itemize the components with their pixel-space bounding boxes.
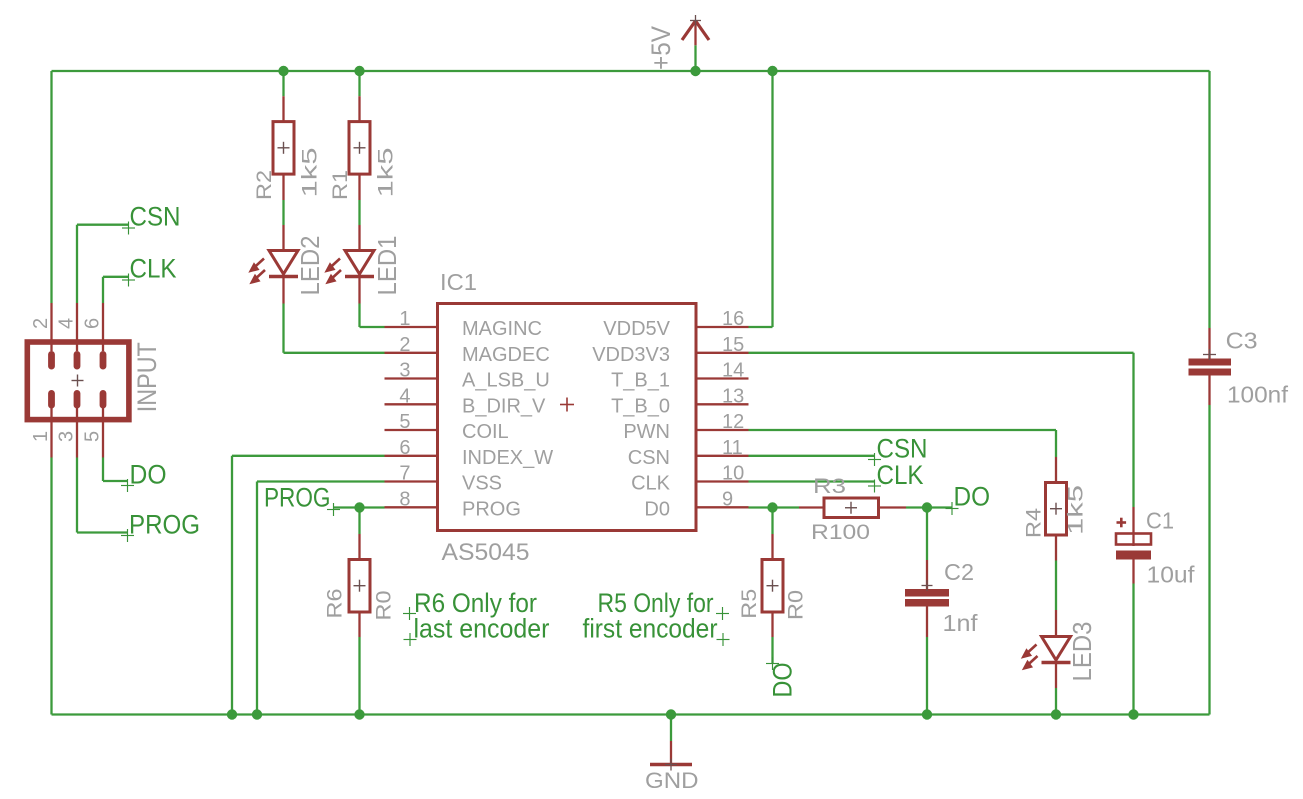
- svg-text:1k5: 1k5: [375, 148, 398, 198]
- svg-text:IC1: IC1: [440, 269, 477, 295]
- svg-text:5: 5: [399, 411, 410, 433]
- svg-text:R5: R5: [738, 589, 761, 619]
- svg-text:3: 3: [56, 431, 78, 442]
- svg-text:B_DIR_V: B_DIR_V: [462, 396, 546, 418]
- svg-text:R6: R6: [324, 589, 347, 619]
- svg-text:R4: R4: [1023, 508, 1046, 538]
- svg-text:CSN: CSN: [877, 434, 928, 464]
- svg-text:LED1: LED1: [372, 236, 402, 296]
- svg-text:MAGINC: MAGINC: [462, 318, 542, 340]
- svg-text:T_B_1: T_B_1: [611, 370, 670, 392]
- svg-text:1: 1: [30, 431, 52, 442]
- svg-text:4: 4: [56, 318, 78, 329]
- svg-text:7: 7: [399, 463, 410, 485]
- svg-text:6: 6: [82, 318, 104, 329]
- svg-text:COIL: COIL: [462, 421, 509, 443]
- svg-text:4: 4: [399, 385, 410, 407]
- svg-text:11: 11: [722, 437, 743, 459]
- svg-text:PROG: PROG: [264, 483, 331, 513]
- svg-text:3: 3: [399, 360, 410, 382]
- svg-text:R2: R2: [253, 170, 276, 200]
- svg-text:D0: D0: [644, 499, 670, 521]
- svg-text:1k5: 1k5: [299, 148, 322, 198]
- svg-text:PROG: PROG: [462, 499, 521, 521]
- svg-text:VSS: VSS: [462, 473, 502, 495]
- svg-text:6: 6: [399, 437, 410, 459]
- svg-text:1nf: 1nf: [943, 610, 979, 636]
- svg-text:100nf: 100nf: [1227, 382, 1289, 408]
- svg-text:8: 8: [399, 488, 410, 510]
- svg-text:1k5: 1k5: [1065, 485, 1088, 535]
- svg-text:14: 14: [722, 360, 744, 382]
- svg-text:9: 9: [722, 488, 733, 510]
- svg-text:T_B_0: T_B_0: [611, 396, 670, 418]
- svg-text:first encoder: first encoder: [583, 613, 718, 643]
- svg-text:last encoder: last encoder: [414, 613, 550, 643]
- svg-text:CSN: CSN: [130, 202, 181, 232]
- svg-text:DO: DO: [130, 460, 167, 490]
- svg-text:10: 10: [722, 463, 744, 485]
- svg-text:INDEX_W: INDEX_W: [462, 447, 553, 469]
- svg-text:C1: C1: [1146, 508, 1174, 534]
- svg-text:CLK: CLK: [877, 460, 924, 490]
- svg-text:13: 13: [722, 385, 744, 407]
- svg-text:AS5045: AS5045: [442, 539, 530, 566]
- svg-text:15: 15: [722, 334, 744, 356]
- svg-text:2: 2: [30, 318, 52, 329]
- svg-text:CSN: CSN: [628, 447, 670, 469]
- svg-text:1: 1: [399, 308, 410, 330]
- svg-text:16: 16: [722, 308, 744, 330]
- svg-text:INPUT: INPUT: [132, 342, 162, 412]
- svg-text:CLK: CLK: [130, 254, 177, 284]
- svg-text:VDD3V3: VDD3V3: [592, 344, 670, 366]
- svg-text:GND: GND: [645, 768, 699, 793]
- svg-text:C3: C3: [1226, 328, 1258, 354]
- svg-text:LED3: LED3: [1067, 622, 1097, 682]
- svg-text:PROG: PROG: [129, 510, 200, 540]
- svg-text:R0: R0: [785, 590, 808, 620]
- svg-text:R0: R0: [372, 591, 395, 621]
- svg-text:+5V: +5V: [646, 26, 676, 70]
- svg-text:2: 2: [399, 334, 410, 356]
- svg-text:10uf: 10uf: [1147, 561, 1196, 587]
- svg-text:C2: C2: [944, 559, 974, 585]
- svg-text:R100: R100: [811, 521, 870, 544]
- svg-text:A_LSB_U: A_LSB_U: [462, 370, 550, 392]
- svg-text:DO: DO: [954, 482, 991, 512]
- svg-text:PWN: PWN: [623, 421, 670, 443]
- svg-text:VDD5V: VDD5V: [603, 318, 670, 340]
- svg-text:5: 5: [82, 431, 104, 442]
- svg-text:MAGDEC: MAGDEC: [462, 344, 550, 366]
- svg-text:R3: R3: [813, 475, 846, 498]
- svg-text:CLK: CLK: [631, 473, 671, 495]
- svg-text:12: 12: [722, 411, 744, 433]
- svg-text:LED2: LED2: [295, 236, 325, 296]
- svg-text:R1: R1: [329, 170, 352, 200]
